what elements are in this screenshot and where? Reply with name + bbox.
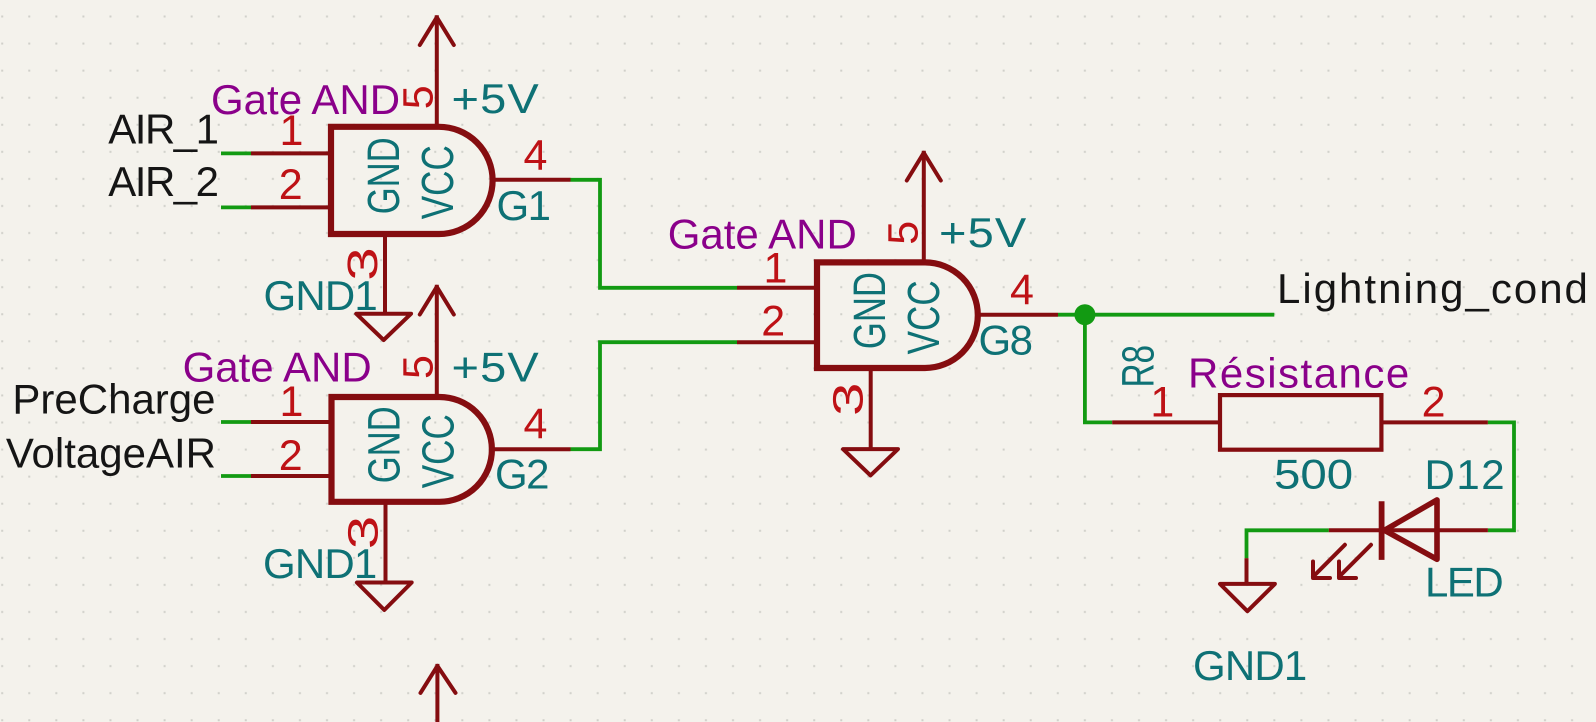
pin 4 of G1 <box>493 178 571 182</box>
svg-text:500: 500 <box>1274 451 1353 498</box>
ground pin stub <box>1245 558 1249 584</box>
AND gate G2 body <box>332 397 492 502</box>
wire to G2 pin2 <box>221 474 251 478</box>
LED emission arrow 2 <box>1313 545 1345 578</box>
svg-text:4: 4 <box>524 132 548 180</box>
svg-text:G2: G2 <box>495 450 548 497</box>
svg-text:G1: G1 <box>497 182 550 229</box>
svg-text:+5V: +5V <box>452 76 540 122</box>
wire G2 out to G8 in2 <box>571 342 738 449</box>
power +5V partial bottom pin <box>435 664 439 722</box>
svg-text:GND1: GND1 <box>1193 642 1307 689</box>
pin 1 of G2 <box>251 420 332 424</box>
pin 5 of G8 <box>922 151 926 263</box>
ground symbol GND1 at LED <box>1220 584 1275 611</box>
wire G8 out to label <box>1058 313 1274 317</box>
svg-text:GND: GND <box>845 272 895 349</box>
svg-text:VCC: VCC <box>898 280 949 354</box>
svg-text:Gate AND: Gate AND <box>668 210 857 257</box>
svg-text:Gate AND: Gate AND <box>211 76 400 123</box>
pin 3 of G1 <box>383 234 387 314</box>
wire LED cathode to ground <box>1247 530 1329 558</box>
pin 1 of R8 <box>1112 420 1220 424</box>
svg-text:2: 2 <box>761 298 785 346</box>
svg-text:VCC: VCC <box>412 414 463 488</box>
LED emission arrow 1 <box>1339 545 1371 578</box>
AND gate G1 body <box>331 127 493 234</box>
svg-text:1: 1 <box>280 107 304 155</box>
svg-text:+5V: +5V <box>452 345 540 391</box>
resistor R8 body <box>1220 395 1381 450</box>
LED axis line / pins <box>1329 528 1488 532</box>
pin 4 of G8 <box>978 313 1058 317</box>
svg-text:3: 3 <box>825 383 873 416</box>
ground symbol GND1 of G1 <box>356 314 411 340</box>
svg-text:1: 1 <box>764 245 788 293</box>
svg-text:Lightning_cond: Lightning_cond <box>1277 265 1590 312</box>
svg-text:5: 5 <box>394 85 442 109</box>
pin 5 of G2 <box>435 285 439 397</box>
svg-text:LED: LED <box>1425 559 1502 606</box>
power +5V arrow G2 <box>420 287 454 315</box>
svg-text:AIR_1: AIR_1 <box>108 106 217 153</box>
pin 5 of G1 <box>435 15 439 127</box>
svg-text:AIR_2: AIR_2 <box>108 158 217 205</box>
power +5V partial bottom arrow <box>421 666 456 693</box>
LED triangle <box>1385 500 1438 559</box>
pin 3 of G2 <box>384 502 388 583</box>
wire to G2 pin1 <box>221 420 251 424</box>
svg-text:VCC: VCC <box>412 145 463 219</box>
pin 4 of G2 <box>492 447 571 451</box>
svg-text:1: 1 <box>280 378 304 426</box>
AND gate G8 body <box>817 262 978 368</box>
wire to G1 pin2 <box>221 205 251 209</box>
svg-text:GND: GND <box>359 406 409 483</box>
pin 1 of G1 <box>251 151 331 155</box>
ground symbol of G8 <box>843 449 898 475</box>
pin 1 of G8 <box>737 286 817 290</box>
pin 2 of G2 <box>251 474 332 478</box>
wire to G1 pin1 <box>221 151 251 155</box>
svg-text:VoltageAIR: VoltageAIR <box>6 430 216 477</box>
svg-text:5: 5 <box>394 355 442 379</box>
LED cathode bar <box>1379 501 1385 560</box>
svg-text:G8: G8 <box>979 317 1032 364</box>
svg-text:Résistance: Résistance <box>1188 349 1411 396</box>
wire G1 out to G8 in1 <box>571 180 738 288</box>
svg-text:1: 1 <box>1150 378 1174 426</box>
svg-text:D12: D12 <box>1425 451 1507 498</box>
svg-text:2: 2 <box>279 161 303 209</box>
svg-text:2: 2 <box>1422 378 1446 426</box>
power +5V arrow G1 <box>420 17 454 45</box>
pin 2 of G8 <box>737 340 817 344</box>
svg-text:4: 4 <box>1010 266 1034 314</box>
svg-text:3: 3 <box>340 516 388 549</box>
pin 3 of G8 <box>869 368 873 449</box>
ground symbol GND1 of G2 <box>357 583 412 611</box>
wire junction down to R8 <box>1085 315 1112 423</box>
junction node <box>1074 304 1095 325</box>
wire R8 pin2 down to LED <box>1488 422 1514 530</box>
power +5V arrow G8 <box>907 153 941 181</box>
svg-text:2: 2 <box>279 432 303 480</box>
svg-text:GND: GND <box>359 137 409 214</box>
svg-text:+5V: +5V <box>939 210 1027 256</box>
svg-text:4: 4 <box>524 400 548 448</box>
svg-text:3: 3 <box>339 247 387 280</box>
svg-text:5: 5 <box>880 221 928 245</box>
svg-text:PreCharge: PreCharge <box>12 375 215 422</box>
pin 2 of G1 <box>251 205 331 209</box>
pin 2 of R8 <box>1381 420 1488 424</box>
